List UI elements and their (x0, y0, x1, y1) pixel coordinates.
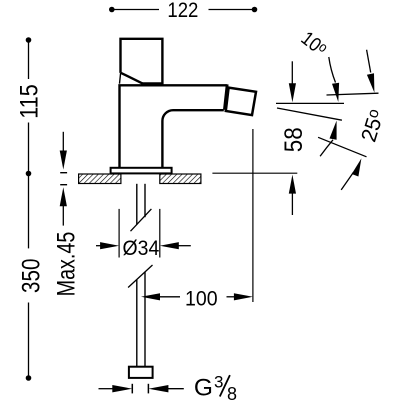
dimension G 3/8 (99, 373, 238, 400)
svg-text:122: 122 (167, 0, 198, 22)
pipe break slash lower (128, 265, 152, 288)
10 degree jet line C (277, 108, 342, 120)
svg-text:3: 3 (214, 373, 223, 392)
pipe break slash upper (131, 209, 152, 231)
countertop left slab (79, 174, 121, 184)
dimension 115 (15, 37, 43, 176)
supply pipe lower segment (136, 280, 138, 367)
10 degree dimension arc lower with arrow to line C (320, 121, 337, 157)
svg-text:350: 350 (17, 259, 45, 293)
svg-text:25o: 25o (356, 107, 388, 145)
faucet handle knob (121, 39, 163, 84)
svg-text:100: 100 (185, 286, 218, 310)
spout end face (224, 84, 227, 110)
10 degree dimension arc upper with arrow to line B (329, 57, 339, 102)
G3/8 connector nut (129, 367, 153, 378)
countertop level extension line (212, 172, 297, 174)
spout underside with inner corner radius (162, 110, 223, 168)
25 degree jet line D (318, 137, 366, 157)
countertop right slab (160, 174, 201, 184)
dimension 58 (280, 61, 308, 215)
svg-text:Ø34: Ø34 (123, 236, 160, 260)
dimension Ø34 (96, 209, 191, 260)
svg-text:G: G (194, 374, 213, 400)
dimension 122 (109, 0, 257, 22)
svg-text:115: 115 (15, 84, 43, 119)
dimension 100 (141, 286, 253, 310)
aerator nozzle (tilted square) (226, 88, 256, 116)
supply pipe upper segment (136, 184, 138, 225)
25 degree dimension arc lower with arrow to line D (341, 158, 361, 190)
dimension Max.45 (52, 132, 80, 297)
dimension 350 (17, 174, 45, 381)
nozzle axis vertical line (252, 129, 254, 302)
handle lever tip (120, 73, 121, 84)
svg-text:8: 8 (227, 384, 237, 400)
25 degree dimension arc upper with arrow to line B (367, 50, 375, 93)
base plate (111, 168, 172, 174)
svg-text:Max.45: Max.45 (52, 232, 80, 297)
svg-text:58: 58 (280, 127, 308, 152)
angle reference line A (horizontal lower) (276, 102, 344, 104)
handle lever diagonal (121, 73, 142, 84)
faucet body and spout outline (120, 85, 227, 168)
svg-text:10o: 10o (297, 27, 332, 61)
angle reference line B (horizontal upper) (327, 93, 379, 95)
